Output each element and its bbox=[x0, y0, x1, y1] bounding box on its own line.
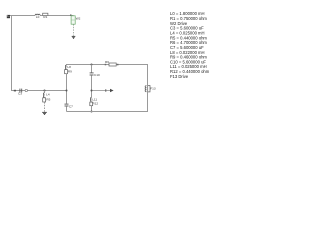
current sense arrow F13 bbox=[93, 89, 114, 93]
wire mid rail bbox=[11, 90, 67, 92]
svg-text:C3: C3 bbox=[18, 91, 22, 95]
wire right vertical upper bbox=[147, 64, 149, 85]
value list text bbox=[170, 11, 210, 79]
wire R12 to bottom rail bbox=[91, 106, 93, 112]
junction tick bbox=[14, 90, 16, 92]
wire R5 to ground (dashed) bbox=[44, 102, 46, 112]
svg-text:C7: C7 bbox=[69, 104, 73, 108]
junction dot mid arrow bbox=[91, 90, 93, 92]
svg-text:F13 Drive: F13 Drive bbox=[170, 74, 189, 79]
svg-text:W2: W2 bbox=[76, 16, 81, 20]
wire bottom rail bbox=[67, 111, 148, 113]
svg-text:R1: R1 bbox=[43, 15, 47, 19]
resistor R6 bbox=[105, 60, 119, 66]
svg-text:L4: L4 bbox=[46, 93, 50, 97]
inductor L4 bbox=[43, 93, 49, 98]
resistor R9 bbox=[65, 70, 73, 74]
junction dot bottom bbox=[91, 111, 93, 113]
svg-text:R6: R6 bbox=[105, 60, 109, 64]
wire left vertical bbox=[11, 15, 13, 91]
resistor R1 bbox=[43, 13, 48, 19]
wire C10 to mid junction bbox=[91, 75, 93, 97]
branch L8 R9 vertical bbox=[66, 64, 68, 65]
junction dot L4 branch bbox=[44, 90, 46, 92]
svg-text:L8: L8 bbox=[67, 65, 71, 69]
transformer F13 bbox=[145, 86, 156, 92]
capacitor C3 bbox=[18, 89, 22, 96]
resistor R5 bbox=[43, 98, 51, 102]
wire L4 branch bbox=[44, 91, 46, 93]
inductor L0 bbox=[35, 14, 40, 19]
junction dot top C10 bbox=[91, 64, 93, 66]
svg-text:L0: L0 bbox=[36, 15, 40, 19]
svg-text:R12: R12 bbox=[92, 102, 98, 106]
wire C10 branch upper bbox=[91, 65, 93, 73]
junction dot T mid bbox=[66, 90, 68, 92]
ground (W2) bbox=[72, 36, 76, 38]
wire R9 down through T to C7 bbox=[66, 74, 68, 104]
wire right vertical lower bbox=[147, 92, 149, 112]
svg-text:R5: R5 bbox=[46, 98, 50, 102]
capacitor C7 bbox=[65, 104, 74, 108]
svg-text:F13: F13 bbox=[150, 86, 156, 90]
wire network top rail bbox=[67, 64, 148, 66]
resistor R12 bbox=[90, 102, 99, 106]
svg-text:R9: R9 bbox=[68, 70, 72, 74]
voltmeter W2 bbox=[70, 14, 80, 24]
svg-text:C10: C10 bbox=[94, 73, 100, 77]
wire top rail bbox=[10, 15, 74, 17]
wire C7 to bottom rail bbox=[66, 106, 68, 111]
node circle bbox=[25, 89, 27, 91]
capacitor C10 bbox=[90, 73, 100, 77]
inductor L11 bbox=[90, 98, 97, 102]
wire W2 to ground (dashed) bbox=[73, 24, 75, 36]
ground (L4 R5 branch) bbox=[42, 112, 47, 114]
inductor L8 bbox=[65, 65, 71, 70]
port In bbox=[7, 15, 10, 18]
